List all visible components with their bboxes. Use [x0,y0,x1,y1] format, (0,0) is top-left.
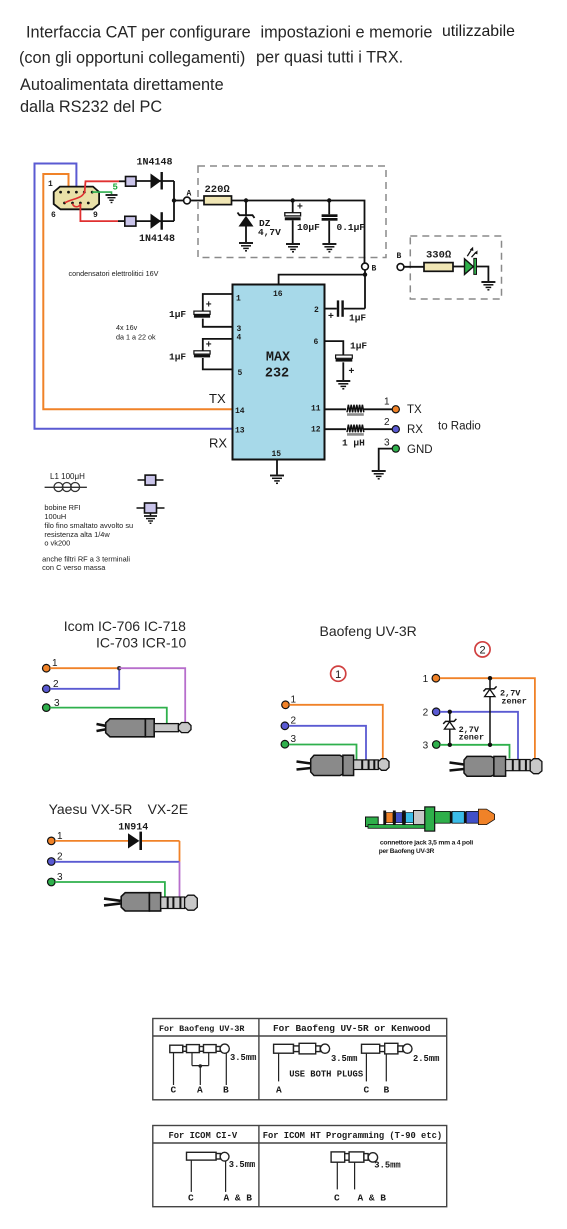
svg-text:(con gli opportuni collegament: (con gli opportuni collegamenti) [19,49,245,67]
svg-text:2: 2 [423,708,429,719]
svg-text:Yaesu VX-5R: Yaesu VX-5R [49,801,133,817]
wire node A to resistor [190,200,204,202]
svg-text:B: B [397,252,402,261]
svg-text:10μF: 10μF [297,222,320,233]
svg-text:330Ω: 330Ω [426,250,452,262]
svg-text:5: 5 [113,183,118,193]
connettore jack colored drawing [366,807,495,831]
wire blue yaesu [55,861,179,863]
t1 left pin lines [174,1053,227,1085]
svg-text:12: 12 [311,426,321,435]
wire green pin5 to ground [92,192,111,194]
junction icom [117,666,121,670]
svg-text:o vk200: o vk200 [44,538,70,547]
wire red pin8 to choke RFI2 [80,204,118,222]
node 2 RX (blue) [392,426,399,433]
capacitor C1 1uF (pins 1-3) [194,294,233,327]
wire GND to ground [379,449,393,470]
svg-text:13: 13 [235,427,245,436]
table 2 [153,1126,447,1207]
ground (GND node) [372,471,386,479]
jack plug baofeng1 [297,755,390,775]
junction node B [363,272,367,276]
svg-text:Autoalimentata direttamente: Autoalimentata direttamente [20,76,224,94]
dashed box power section [198,166,386,258]
circled 2 [475,642,490,657]
junction 10uF [291,198,295,202]
wire orange baofeng1 [289,705,383,760]
svg-text:+: + [206,339,212,350]
svg-text:1μF: 1μF [169,352,186,363]
svg-text:filo fino smaltato avvolto su: filo fino smaltato avvolto su [44,521,133,530]
svg-text:1μF: 1μF [350,341,367,352]
svg-text:3: 3 [237,325,242,334]
node 3 icom (green) [43,704,51,712]
svg-text:1: 1 [335,669,341,681]
svg-text:1: 1 [423,674,429,685]
svg-text:C: C [364,1085,370,1096]
svg-text:11: 11 [311,405,321,414]
baofeng1 node 2 (blue) [281,722,289,730]
ground (C4) [336,381,350,389]
ground (DB9 pin5) [106,195,118,203]
wire blue rail from DB9 pin3 to MAX232 pin13 [35,164,233,429]
svg-text:GND: GND [407,444,433,456]
svg-text:zener: zener [501,697,527,707]
svg-text:2: 2 [314,306,319,315]
svg-text:3.5mm: 3.5mm [374,1160,400,1170]
diode D2 1N4148 [136,212,174,230]
inductor L1 [45,483,87,492]
svg-text:1μF: 1μF [169,309,186,320]
svg-text:C: C [334,1193,340,1204]
svg-text:15: 15 [272,450,282,459]
node B (led box) [397,264,404,271]
t1 right jack 2.5mm [362,1043,413,1054]
node 2 icom (blue) [43,685,51,693]
baofeng2 node 3 (green) [433,741,441,749]
wire diode join vertical [173,181,175,221]
yaesu node 2 (blue) [48,858,56,866]
svg-text:2: 2 [479,645,485,657]
ground (0.1uF) [322,244,336,252]
svg-text:For Baofeng UV-5R or Kenwood: For Baofeng UV-5R or Kenwood [273,1023,431,1034]
svg-text:+: + [328,311,334,322]
svg-text:impostazioni e memorie: impostazioni e memorie [261,24,433,42]
svg-text:For ICOM CI-V: For ICOM CI-V [169,1131,238,1141]
zener diode 2.7V (2) [443,712,456,745]
ground (zener) [239,243,253,251]
svg-text:3.5mm: 3.5mm [230,1053,256,1063]
svg-text:zener: zener [459,732,485,742]
svg-text:dalla RS232 del PC: dalla RS232 del PC [20,98,162,116]
t1 right jack 3.5mm [274,1043,330,1054]
table 1 [153,1019,447,1100]
svg-text:A: A [197,1085,203,1096]
wire join to node A [174,200,184,202]
svg-text:B: B [384,1085,390,1096]
t1 right plug A line [278,1053,280,1081]
svg-text:3: 3 [423,740,429,751]
svg-text:TX: TX [209,391,226,406]
ground (pin 15) [270,476,284,484]
svg-text:B: B [223,1085,229,1096]
svg-text:to Radio: to Radio [438,421,481,433]
zener diode 2.7V (1) [483,678,496,745]
svg-text:1μF: 1μF [349,313,366,324]
svg-text:+: + [297,202,303,213]
wire node B down to pin2 net [364,270,366,309]
zener diode DZ 4.7V [238,201,255,243]
svg-text:con C verso massa: con C verso massa [42,563,106,572]
wire green baofeng1 [289,745,357,761]
choke symbol with ground [137,503,165,523]
node 1 TX (orange) [392,406,399,413]
svg-text:100uH: 100uH [44,512,66,521]
t1 left jack icon [170,1044,229,1053]
svg-text:A & B: A & B [224,1193,253,1204]
svg-text:4x 16v: 4x 16v [116,323,138,332]
baofeng2 node 1 (orange) [432,674,440,682]
capacitor C2 1uF (pins 4-5) [194,339,233,370]
svg-text:1: 1 [291,695,297,706]
ground (LED) [481,282,495,290]
svg-text:C: C [171,1085,177,1096]
svg-text:3: 3 [384,438,390,449]
wire blue icom [50,668,119,689]
wire blue baofeng2 [440,712,518,760]
node A [184,197,191,204]
svg-text:9: 9 [93,211,98,220]
svg-text:220Ω: 220Ω [205,184,231,196]
t2 left pin lines [190,1160,192,1192]
svg-text:4: 4 [237,334,242,343]
svg-text:per quasi tutti i TRX.: per quasi tutti i TRX. [256,49,403,67]
svg-text:IC-703 ICR-10: IC-703 ICR-10 [96,635,186,651]
wire orange rail from DB9 pin2 to MAX232 pin14 [43,174,232,409]
svg-text:A: A [276,1085,282,1096]
circled 1 [331,666,346,681]
baofeng1 node 3 (green) [281,740,289,748]
svg-text:A: A [187,190,192,199]
svg-text:Interfaccia CAT per configurar: Interfaccia CAT per configurare [26,24,251,42]
svg-text:0.1μF: 0.1μF [337,222,366,233]
svg-text:1: 1 [384,397,390,408]
wire resistor to corner [232,201,365,264]
svg-text:C: C [188,1193,194,1204]
svg-text:3.5mm: 3.5mm [331,1054,357,1064]
wire orange baofeng2 [440,678,535,760]
svg-text:+: + [206,299,212,310]
svg-text:6: 6 [51,211,56,220]
svg-text:USE BOTH PLUGS: USE BOTH PLUGS [289,1070,363,1080]
LED dashed box [410,236,501,299]
capacitor 0.1uF [322,201,338,244]
svg-text:B: B [372,265,377,274]
junction zener [244,198,248,202]
node 1 icom (orange) [43,664,51,672]
jack plug baofeng2 [450,756,542,776]
yaesu node 3 (green) [48,878,56,886]
svg-text:232: 232 [265,367,289,382]
LED D3 [465,247,478,275]
wire orange icom [50,667,119,669]
node 3 GND (green) [392,445,399,452]
svg-text:Baofeng UV-3R: Baofeng UV-3R [320,623,417,639]
svg-text:1N4148: 1N4148 [139,234,175,245]
svg-text:A & B: A & B [358,1193,387,1204]
inductor L2 (pin 11) [325,405,393,416]
svg-text:5: 5 [238,369,243,378]
capacitor 10uF electrolytic [285,201,301,244]
wire pin15 to ground [276,460,278,475]
wire resistor to LED [453,266,465,268]
svg-text:2: 2 [384,417,390,428]
node B [362,263,369,270]
svg-text:1: 1 [236,295,241,304]
svg-text:1: 1 [48,180,53,189]
t2 right pin lines [336,1162,338,1189]
yaesu node 1 (orange) [48,837,56,845]
svg-text:connettore jack 3,5 mm a 4 pol: connettore jack 3,5 mm a 4 poli [380,840,473,847]
wire green baofeng2 [440,745,509,759]
wire B to resistor 330 [404,266,424,268]
ground (10uF) [286,244,300,252]
svg-text:2: 2 [291,716,297,727]
jack plug icom [97,719,192,737]
wire red pin4 to choke RFI1 [85,181,119,192]
junction zener1 top [488,676,492,680]
capacitor C3 1uF (pin 2) [325,300,366,316]
svg-text:TX: TX [407,404,422,416]
wire purple icom to jack tip [119,668,185,722]
svg-text:utilizzabile: utilizzabile [442,23,515,40]
junction zener2 bottom [448,743,452,747]
wire orange yaesu down [179,841,181,862]
svg-text:14: 14 [235,407,245,416]
jack plug yaesu [104,893,197,911]
svg-text:3: 3 [291,734,297,745]
svg-text:da 1 a 22 ok: da 1 a 22 ok [116,333,156,342]
svg-text:For Baofeng UV-3R: For Baofeng UV-3R [159,1024,245,1034]
resistor 330ohm [424,263,453,272]
wire green yaesu [55,882,165,897]
baofeng1 node 1 (orange) [282,701,290,709]
svg-text:bobine RFI: bobine RFI [44,503,80,512]
svg-text:2: 2 [57,852,63,863]
diode D1 1N4148 [136,172,174,190]
t1 right plug C B lines [365,1053,367,1081]
junction at diode join [172,198,176,202]
choke RFI2 [125,216,136,226]
baofeng2 node 2 (blue) [432,708,440,716]
svg-text:VX-2E: VX-2E [148,801,188,817]
diode 1N914 [128,832,180,850]
svg-text:2.5mm: 2.5mm [413,1054,439,1064]
svg-text:condensatori elettrolitici 16V: condensatori elettrolitici 16V [69,269,159,278]
svg-text:RX: RX [407,424,423,436]
svg-text:1 μH: 1 μH [342,438,365,449]
wire to pin16 [279,275,365,285]
svg-text:4,7V: 4,7V [258,227,281,238]
svg-text:16: 16 [273,290,283,299]
wire purple yaesu to jack [179,862,181,898]
connector DB9 J1 [54,187,99,210]
svg-text:per Baofeng UV-3R: per Baofeng UV-3R [379,848,435,855]
wire blue baofeng1 [289,726,366,760]
svg-text:MAX: MAX [266,351,291,366]
junction zener2 top [448,710,452,714]
wire red DB9 internal jumper [65,192,85,207]
t1 junction dot [199,1064,203,1068]
svg-text:RX: RX [209,436,227,451]
junction zener1 bottom [488,743,492,747]
svg-text:1N4148: 1N4148 [137,158,173,169]
choke symbol plain [138,475,164,485]
svg-text:For ICOM HT Programming (T-90: For ICOM HT Programming (T-90 etc) [263,1131,443,1141]
svg-text:1N914: 1N914 [118,823,148,834]
svg-text:3.5mm: 3.5mm [229,1160,255,1170]
capacitor C4 1uF (pin 6) [325,341,353,380]
wire LED to ground [477,267,489,282]
t2 left jack icon [187,1152,230,1161]
wire orange yaesu [55,840,128,842]
svg-text:6: 6 [314,338,319,347]
t2 right jack icon [331,1152,377,1162]
svg-text:+: + [349,366,355,377]
svg-text:Icom IC-706 IC-718: Icom IC-706 IC-718 [64,618,186,634]
resistor 220ohm [204,196,232,205]
svg-text:L1 100μH: L1 100μH [50,472,85,481]
op-amp U1 MAX232 body [233,285,325,460]
inductor L3 1uH (pin 12) [325,425,393,436]
choke RFI1 [126,177,137,187]
junction 0.1uF [327,198,331,202]
wire green icom to jack sleeve [50,708,167,724]
